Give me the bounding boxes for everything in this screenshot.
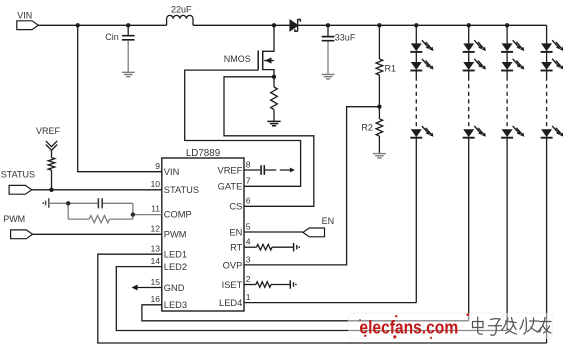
ground at RT (rotated) [294, 243, 300, 252]
wire LED string 2 segment [468, 52, 470, 62]
svg-text:10: 10 [150, 179, 160, 189]
node COMP network A [66, 201, 70, 205]
svg-text:1: 1 [246, 292, 251, 302]
wire LED string 2 dashed segment [468, 71, 470, 77]
svg-text:LED1: LED1 [164, 250, 187, 260]
svg-text:ISET: ISET [222, 280, 243, 290]
svg-text:8: 8 [246, 159, 251, 169]
node R1/R2 junction [377, 105, 381, 109]
LED D2a [463, 40, 486, 52]
wire EN pin5 [244, 231, 303, 233]
svg-text:11: 11 [151, 204, 160, 214]
svg-text:33uF: 33uF [335, 33, 356, 43]
node VREF tag [36, 126, 61, 151]
svg-text:GATE: GATE [218, 182, 243, 192]
pin 3 OVP label [223, 254, 251, 270]
ground at COMP (rotated, gray) [43, 198, 49, 207]
diode D1 (schottky) [290, 19, 300, 31]
ground arrow at pin 15 [132, 285, 162, 291]
node rail/R1 junction [377, 23, 381, 27]
pin 13 LED1 label [150, 244, 187, 260]
svg-text:STATUS: STATUS [164, 185, 199, 195]
pin 9 VIN label [155, 161, 179, 177]
wire OVP pin3 to R1/R2 junction [244, 107, 379, 265]
wire GATE pin7 to NMOS gate [185, 70, 301, 186]
svg-text:5: 5 [246, 221, 251, 231]
port PWM [3, 214, 32, 239]
wire LED string 1 dashed segment [415, 71, 417, 77]
resistor Rcs (sense) [271, 77, 278, 121]
wire LED2 pin14 to string3 [116, 267, 507, 331]
LED D2b [463, 59, 486, 71]
wire LED string 4 segment [546, 52, 548, 62]
ground below R2 [373, 154, 386, 158]
svg-text:NMOS: NMOS [224, 54, 251, 64]
port EN [303, 216, 334, 237]
svg-text:16: 16 [150, 294, 160, 304]
resistor R-ISET [244, 282, 290, 288]
node rail/VIN-branch junction [76, 23, 80, 27]
ground below Cin [122, 72, 135, 76]
svg-text:OVP: OVP [223, 260, 243, 270]
pin 14 LED2 label [150, 256, 187, 272]
pin 8 VREF label [218, 159, 251, 175]
svg-text:elecfans.com: elecfans.com [359, 316, 458, 337]
resistor R2 [361, 107, 382, 154]
svg-text:22uF: 22uF [171, 5, 192, 15]
svg-text:EN: EN [229, 227, 242, 237]
LED D3b [501, 59, 524, 71]
pin 12 PWM label [150, 224, 186, 240]
node rail/LED-string1 junction [414, 23, 418, 27]
pin 1 LED4 label [219, 292, 251, 308]
op-amp U1 LD7889 (controller IC) [162, 148, 244, 311]
wire rail diode to LED strings [298, 24, 547, 26]
resistor R-RT [244, 244, 293, 250]
wire LED string 1 anode lead [415, 25, 417, 43]
resistor R1 [376, 25, 396, 106]
LED D2c [463, 126, 486, 138]
node NMOS source junction [272, 75, 276, 79]
LED D3a [501, 40, 524, 52]
node rail/33uF junction [326, 23, 330, 27]
pin 5 EN label [229, 221, 250, 237]
svg-text:Cin: Cin [105, 32, 119, 42]
svg-text:LED4: LED4 [219, 298, 242, 308]
node rail/LED-string3 junction [505, 23, 509, 27]
svg-text:9: 9 [155, 161, 160, 171]
transistor NMOS Q1 [224, 25, 274, 77]
svg-text:R2: R2 [361, 123, 373, 133]
LED D4c [541, 126, 563, 138]
wire LED string 3 segment [506, 52, 508, 62]
LED D4b [541, 59, 563, 71]
LED D3c [501, 126, 524, 138]
svg-text:VREF: VREF [36, 126, 61, 136]
pin 2 ISET label [222, 274, 251, 290]
LED D1a [410, 40, 433, 52]
capacitor 33uF [322, 25, 356, 74]
wire LED string 1 segment [415, 52, 417, 62]
svg-text:VREF: VREF [218, 165, 243, 175]
pin 15 GND label [150, 277, 184, 293]
svg-text:12: 12 [150, 224, 160, 234]
pin 10 STATUS label [150, 179, 199, 195]
svg-text:R1: R1 [385, 63, 397, 73]
wire LED1 pin13 to string4 [98, 254, 547, 343]
svg-text:PWM: PWM [164, 230, 187, 240]
svg-text:COMP: COMP [164, 210, 192, 220]
svg-text:GND: GND [164, 283, 185, 293]
watermark ink splats [359, 313, 469, 339]
svg-text:LED2: LED2 [164, 262, 187, 272]
svg-text:13: 13 [150, 244, 160, 254]
ground at ISET (rotated) [290, 280, 296, 289]
svg-text:CS: CS [229, 202, 242, 212]
pin 4 RT label [230, 237, 251, 253]
svg-text:RT: RT [230, 243, 243, 253]
svg-text:7: 7 [246, 176, 251, 186]
wire CS pin6 to source [224, 77, 314, 207]
node rail/Cin junction [126, 23, 130, 27]
pin 6 CS label [229, 196, 250, 212]
svg-text:PWM: PWM [3, 214, 25, 224]
svg-text:15: 15 [150, 277, 160, 287]
svg-text:VIN: VIN [164, 167, 180, 177]
wire LED string 2 anode lead [468, 25, 470, 43]
wire LED4 pin1 to string1 [244, 302, 416, 304]
capacitor C-VREF with arrow [244, 165, 295, 175]
node STATUS/R-VREF junction [49, 188, 53, 192]
resistor R-comp (gray) [68, 203, 133, 222]
ground below 33uF [322, 75, 335, 79]
pin 11 COMP label [151, 204, 192, 220]
svg-text:14: 14 [150, 256, 160, 266]
node COMP network B [131, 212, 135, 216]
watermark chinese characters [473, 317, 552, 335]
svg-text:LD7889: LD7889 [186, 148, 220, 159]
LED D1b [410, 59, 433, 71]
wire LED string 4 anode lead [546, 25, 548, 43]
port STATUS [1, 169, 35, 194]
wire COMP pin11 (gray) [133, 214, 162, 216]
node rail/NMOS-drain junction [272, 23, 276, 27]
svg-text:STATUS: STATUS [1, 169, 35, 179]
resistor R-VREF [48, 150, 55, 190]
wire LED string 2 cathode return [468, 138, 470, 321]
capacitor C-comp2 (series, gray) [49, 198, 133, 208]
wire LED string 4 cathode return [546, 138, 548, 343]
LED D4a [541, 40, 563, 52]
svg-text:LED3: LED3 [164, 300, 187, 310]
wire VIN rail left segment [38, 24, 166, 26]
svg-text:4: 4 [246, 237, 251, 247]
ground below Rcs [267, 121, 280, 125]
wire PWM pin12 [33, 233, 162, 235]
svg-text:6: 6 [246, 196, 251, 206]
wire STATUS pin10 [32, 189, 162, 191]
wire LED string 3 dashed segment [506, 71, 508, 77]
svg-text:VIN: VIN [17, 11, 32, 21]
port VIN [17, 11, 39, 30]
node rail/LED-string2 junction [467, 23, 471, 27]
watermark background [348, 313, 553, 339]
wire LED string 1 cathode return [415, 138, 417, 303]
pin 16 LED3 label [150, 294, 187, 310]
svg-text:EN: EN [322, 216, 335, 226]
wire LED string 3 anode lead [506, 25, 508, 43]
wire rail inductor to diode [193, 24, 290, 26]
wire LED string 3 cathode return [506, 138, 508, 331]
pin 7 GATE label [218, 176, 251, 192]
LED D1c [410, 126, 433, 138]
wire LED string 4 dashed segment [546, 71, 548, 77]
capacitor Cin [105, 25, 134, 72]
svg-text:2: 2 [246, 274, 251, 284]
inductor 22uF [167, 5, 193, 26]
wire LED3 pin16 to string2 [142, 305, 469, 321]
svg-text:3: 3 [246, 254, 251, 264]
wire VIN rail to pin 9 [78, 25, 162, 171]
